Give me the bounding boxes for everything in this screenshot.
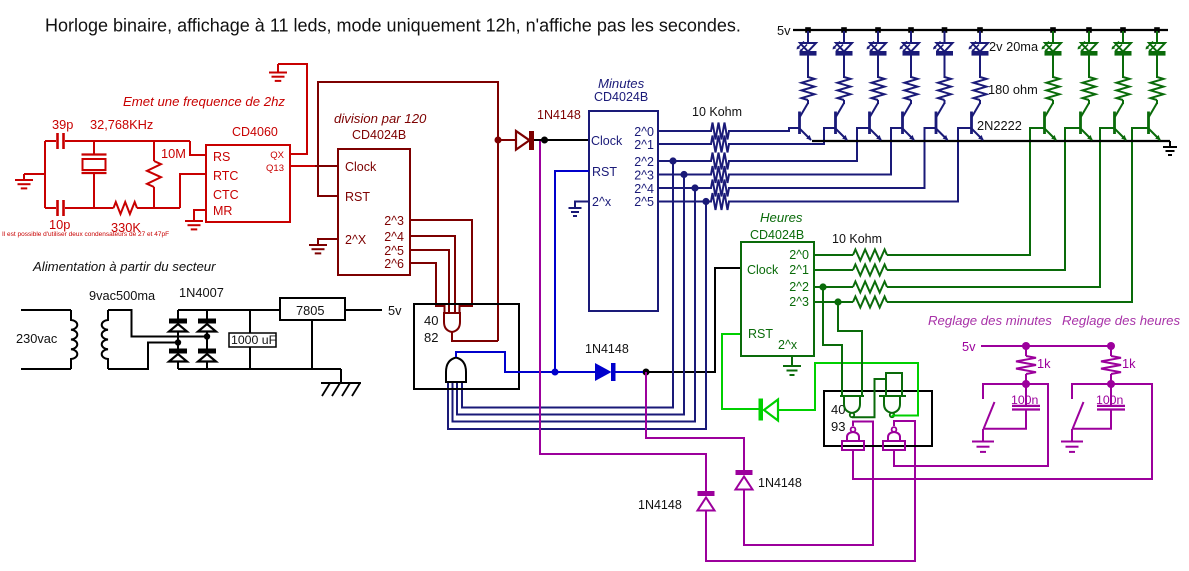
resistor 1k bbox=[1110, 346, 1112, 356]
resistor 180ohm bbox=[1083, 77, 1096, 100]
node on 5v rail bbox=[1050, 27, 1056, 33]
node 2^3 bbox=[680, 171, 687, 178]
wire bbox=[1122, 31, 1124, 43]
wire 2^3 line bbox=[658, 174, 712, 176]
wire bbox=[728, 128, 903, 175]
node bbox=[1022, 380, 1030, 388]
NAND gate U6b bbox=[879, 395, 906, 397]
wire bbox=[1052, 56, 1054, 79]
wire left vertical bbox=[44, 141, 46, 208]
svg-text:2^4: 2^4 bbox=[634, 182, 654, 196]
wire bbox=[843, 31, 845, 43]
wire RST bbox=[555, 171, 589, 372]
wire clock feed bbox=[315, 165, 338, 167]
wire Q13 output bbox=[290, 165, 316, 167]
svg-text:1k: 1k bbox=[1037, 356, 1051, 371]
ground bbox=[269, 72, 287, 74]
svg-text:2^5: 2^5 bbox=[634, 195, 654, 209]
wire gate1 output bbox=[852, 379, 886, 417]
wire to switch bbox=[1072, 384, 1111, 399]
node on 5v rail bbox=[875, 27, 881, 33]
wire gate output bbox=[456, 352, 596, 372]
node on 5v rail bbox=[1086, 27, 1092, 33]
svg-text:2^0: 2^0 bbox=[789, 248, 809, 262]
svg-text:9vac500ma: 9vac500ma bbox=[89, 288, 156, 303]
svg-text:Clock: Clock bbox=[591, 134, 623, 148]
wire 2^1 line bbox=[658, 143, 712, 145]
wire bbox=[944, 100, 946, 104]
svg-text:2^3: 2^3 bbox=[789, 295, 809, 309]
resistor 10K bbox=[711, 166, 729, 183]
svg-text:2^4: 2^4 bbox=[384, 230, 404, 244]
svg-text:Minutes: Minutes bbox=[598, 76, 645, 91]
node bbox=[541, 137, 548, 144]
transistor Q10 2N2222 bbox=[1147, 112, 1150, 135]
svg-text:Il est possible d'utiliser deu: Il est possible d'utiliser deux condensa… bbox=[2, 231, 169, 238]
transistor Q9 2N2222 bbox=[1113, 112, 1116, 135]
svg-text:2v 20ma: 2v 20ma bbox=[989, 39, 1039, 54]
wire bbox=[1122, 56, 1124, 79]
node on 5v rail bbox=[1154, 27, 1160, 33]
wire 2^X ground bbox=[318, 239, 338, 245]
wire bbox=[1156, 56, 1158, 79]
svg-text:180 ohm: 180 ohm bbox=[988, 82, 1038, 97]
resistor 180ohm bbox=[838, 77, 851, 100]
wire 2^4 bbox=[410, 236, 455, 313]
svg-text:CD4024B: CD4024B bbox=[750, 228, 804, 242]
LED D10 bbox=[1149, 43, 1165, 52]
NAND gate U6d bbox=[892, 427, 897, 432]
transistor Q1 2N2222 bbox=[798, 112, 801, 135]
resistor 10K bbox=[853, 250, 887, 261]
svg-text:5v: 5v bbox=[388, 303, 402, 318]
transformer T1 primary bbox=[71, 310, 77, 369]
wire heures clock to diode bbox=[646, 372, 744, 470]
wire bbox=[887, 128, 1115, 287]
wire gate3 input bbox=[853, 384, 1152, 479]
node on 5v rail bbox=[942, 27, 948, 33]
svg-text:5v: 5v bbox=[777, 23, 791, 38]
wire secondary bottom bbox=[108, 343, 178, 370]
wire 2^1 line bbox=[814, 269, 853, 271]
IC U6 4093 bbox=[824, 391, 932, 446]
transistor Q7 2N2222 bbox=[1043, 112, 1046, 135]
svg-text:5v: 5v bbox=[962, 339, 976, 354]
wire 2^3 bbox=[410, 220, 472, 313]
switch SW bbox=[1073, 402, 1084, 429]
wire bottom rail bbox=[45, 207, 180, 209]
wire 2^4 to gate bbox=[453, 188, 696, 422]
resistor 10K bbox=[711, 153, 729, 170]
node 2^4 bbox=[691, 184, 698, 191]
node 2^3 bbox=[834, 298, 841, 305]
capacitor 39p bbox=[56, 133, 59, 149]
svg-text:10p: 10p bbox=[49, 217, 70, 232]
svg-text:QX: QX bbox=[270, 150, 284, 161]
svg-text:2^2: 2^2 bbox=[789, 280, 809, 294]
wire emitter rail bbox=[812, 140, 1170, 142]
resistor 10K bbox=[711, 193, 729, 210]
wire bbox=[744, 422, 873, 546]
wire bbox=[1052, 31, 1054, 43]
node on 5v rail bbox=[977, 27, 983, 33]
svg-text:7805: 7805 bbox=[296, 303, 324, 318]
wire 2^2 to gate1 bbox=[823, 287, 842, 396]
svg-text:40: 40 bbox=[424, 313, 438, 328]
ground bbox=[1061, 441, 1083, 443]
wire 2^x ground bbox=[575, 202, 589, 209]
transistor Q8 2N2222 bbox=[1079, 112, 1082, 135]
svg-text:Horloge binaire, affichage à 1: Horloge binaire, affichage à 11 leds, mo… bbox=[45, 16, 741, 36]
LED D4 bbox=[903, 43, 919, 52]
svg-text:Clock: Clock bbox=[345, 160, 377, 174]
wire bbox=[877, 100, 879, 104]
svg-text:1N4148: 1N4148 bbox=[638, 498, 682, 512]
regulator U8 7805 bbox=[280, 298, 345, 320]
node bbox=[175, 339, 181, 345]
diode D5 bbox=[759, 399, 764, 421]
wire RTC bbox=[180, 174, 206, 208]
wire bbox=[1088, 31, 1090, 43]
resistor 1k bbox=[1025, 346, 1027, 356]
wire 2^4 line bbox=[658, 187, 712, 189]
wire gate2 tied inputs bbox=[886, 373, 902, 396]
wire 5v bbox=[981, 345, 1111, 347]
wire bbox=[944, 31, 946, 43]
wire heures RST loop bbox=[722, 334, 759, 409]
wire bbox=[910, 31, 912, 43]
svg-text:Reglage des minutes: Reglage des minutes bbox=[928, 313, 1052, 328]
svg-text:Heures: Heures bbox=[760, 210, 803, 225]
wire 2^6 bbox=[410, 263, 445, 313]
ground bbox=[24, 174, 45, 180]
wire gate4 input bbox=[894, 384, 1048, 466]
svg-text:1000 uF: 1000 uF bbox=[231, 333, 277, 347]
wire bbox=[706, 421, 915, 561]
resistor 10K bbox=[711, 123, 729, 140]
wire 5v output bbox=[345, 309, 382, 311]
LED D9 bbox=[1115, 43, 1131, 52]
svg-text:RST: RST bbox=[748, 327, 773, 341]
node junction bbox=[495, 137, 502, 144]
wire minutes clock to diode bbox=[540, 141, 706, 491]
resistor 10K bbox=[711, 136, 729, 153]
resistor 180ohm bbox=[872, 77, 885, 100]
wire top rail bbox=[45, 140, 190, 142]
wire to Minutes clock bbox=[534, 139, 589, 141]
LED D7 bbox=[1045, 43, 1061, 52]
LED D6 bbox=[972, 43, 988, 52]
svg-text:CD4060: CD4060 bbox=[232, 125, 278, 139]
resistor 180ohm bbox=[905, 77, 918, 100]
wire RST loop bbox=[318, 82, 498, 341]
node on 5v rail bbox=[841, 27, 847, 33]
wire mains bbox=[21, 310, 71, 369]
svg-text:10 Kohm: 10 Kohm bbox=[692, 105, 742, 119]
svg-text:Clock: Clock bbox=[747, 263, 779, 277]
resistor 10K bbox=[711, 180, 729, 197]
IC U5 4082 bbox=[414, 304, 519, 389]
wire secondary top bbox=[108, 310, 207, 337]
wire to switch bbox=[983, 384, 1026, 399]
svg-text:2^6: 2^6 bbox=[384, 257, 404, 271]
wire bbox=[979, 31, 981, 43]
wire MR ground bbox=[194, 210, 206, 221]
wire bbox=[877, 31, 879, 43]
svg-text:93: 93 bbox=[831, 419, 845, 434]
wire bbox=[1156, 100, 1158, 104]
node bbox=[552, 369, 559, 376]
wire QX to ground bbox=[278, 64, 307, 154]
svg-text:Alimentation à partir du secte: Alimentation à partir du secteur bbox=[32, 259, 216, 274]
LED D2 bbox=[836, 43, 852, 52]
transformer T1 secondary bbox=[102, 310, 108, 369]
wire to Heures clock bbox=[646, 268, 741, 372]
svg-text:Q13: Q13 bbox=[266, 163, 284, 174]
AND gate U5b bbox=[446, 358, 466, 383]
LED D3 bbox=[870, 43, 886, 52]
wire bridge bottom rail bbox=[178, 368, 341, 370]
wire bbox=[1156, 31, 1158, 43]
svg-text:2^3: 2^3 bbox=[634, 169, 654, 183]
wire bbox=[206, 332, 208, 349]
switch SW bbox=[984, 402, 995, 429]
node bbox=[1107, 342, 1115, 350]
wire 2^0 line bbox=[658, 130, 712, 132]
wire bbox=[1088, 100, 1090, 104]
ground bbox=[972, 441, 994, 443]
wire 2^5 bbox=[410, 250, 449, 313]
svg-text:division par 120: division par 120 bbox=[334, 111, 427, 126]
svg-text:1N4148: 1N4148 bbox=[585, 342, 629, 356]
svg-text:1N4148: 1N4148 bbox=[537, 108, 581, 122]
wire bbox=[910, 100, 912, 104]
wire 2^3 to gate bbox=[457, 175, 684, 415]
svg-text:2^x: 2^x bbox=[592, 195, 612, 209]
svg-text:RST: RST bbox=[592, 165, 617, 179]
wire bbox=[887, 128, 1045, 255]
svg-text:10M: 10M bbox=[161, 146, 186, 161]
wire bbox=[1122, 100, 1124, 104]
LED D8 bbox=[1081, 43, 1097, 52]
transistor Q3 2N2222 bbox=[868, 112, 871, 135]
wire bbox=[728, 128, 836, 144]
wire bbox=[778, 363, 918, 417]
ground bbox=[791, 356, 793, 366]
resistor 180ohm bbox=[1151, 77, 1164, 100]
wire bbox=[843, 56, 845, 79]
node bbox=[1107, 380, 1115, 388]
svg-text:1N4007: 1N4007 bbox=[179, 285, 224, 300]
svg-text:MR: MR bbox=[213, 204, 232, 218]
diode bridge D7 bbox=[169, 349, 187, 354]
wire 5v rail bbox=[793, 29, 1168, 31]
svg-text:Emet une frequence de 2hz: Emet une frequence de 2hz bbox=[123, 94, 285, 109]
wire bbox=[728, 128, 800, 131]
resistor 180ohm bbox=[1047, 77, 1060, 100]
svg-text:230vac: 230vac bbox=[16, 331, 58, 346]
svg-text:10 Kohm: 10 Kohm bbox=[832, 232, 882, 246]
node on 5v rail bbox=[805, 27, 811, 33]
node bbox=[204, 333, 210, 339]
node bbox=[643, 369, 650, 376]
svg-text:RST: RST bbox=[345, 190, 370, 204]
wire bbox=[728, 128, 937, 188]
svg-text:2^2: 2^2 bbox=[634, 155, 654, 169]
ground bbox=[1169, 141, 1171, 147]
wire bbox=[807, 56, 809, 79]
transistor Q2 2N2222 bbox=[834, 112, 837, 135]
wire 2^3 to gate1 bbox=[838, 302, 862, 396]
node bbox=[1022, 342, 1030, 350]
wire 2^5 line bbox=[658, 201, 712, 203]
wire bbox=[887, 128, 1081, 270]
svg-text:CD4024B: CD4024B bbox=[352, 128, 406, 142]
wire 2^3 line bbox=[814, 301, 853, 303]
resistor 180ohm bbox=[1117, 77, 1130, 100]
svg-text:2^x: 2^x bbox=[778, 338, 798, 352]
diode bridge D6 bbox=[177, 310, 179, 319]
wire bbox=[807, 31, 809, 43]
node on 5v rail bbox=[1120, 27, 1126, 33]
wire bbox=[177, 332, 179, 349]
svg-text:2^3: 2^3 bbox=[384, 214, 404, 228]
wire bbox=[843, 100, 845, 104]
wire bridge top rail bbox=[178, 309, 280, 311]
wire bbox=[728, 128, 870, 161]
wire bbox=[887, 128, 1149, 302]
transistor Q5 2N2222 bbox=[935, 112, 938, 135]
wire 2^2 to gate bbox=[462, 161, 673, 408]
svg-text:39p: 39p bbox=[52, 117, 73, 132]
ground mains bbox=[321, 369, 361, 383]
wire bbox=[979, 100, 981, 104]
wire 2^2 line bbox=[814, 286, 853, 288]
wire 2^0 line bbox=[814, 254, 853, 256]
NAND gate U6c bbox=[851, 427, 856, 432]
capacitor 10p bbox=[56, 200, 59, 216]
wire 2^2 line bbox=[658, 160, 712, 162]
resistor 180ohm bbox=[974, 77, 987, 100]
wire RS bbox=[190, 141, 206, 155]
capacitor 1000uF bbox=[249, 310, 251, 333]
transistor Q4 2N2222 bbox=[901, 112, 904, 135]
wire bbox=[944, 56, 946, 79]
svg-text:2^0: 2^0 bbox=[634, 125, 654, 139]
svg-text:2^1: 2^1 bbox=[789, 263, 809, 277]
LED D1 bbox=[800, 43, 816, 52]
transistor Q6 2N2222 bbox=[970, 112, 973, 135]
resistor 180ohm bbox=[802, 77, 815, 100]
wire bbox=[807, 100, 809, 104]
wire bbox=[728, 128, 972, 202]
resistor 10K bbox=[853, 265, 887, 276]
svg-text:32,768KHz: 32,768KHz bbox=[90, 117, 153, 132]
svg-text:2N2222: 2N2222 bbox=[977, 118, 1022, 133]
AND gate U3a 4082 bbox=[444, 313, 460, 332]
diode bridge D8 bbox=[206, 310, 208, 319]
node on 5v rail bbox=[908, 27, 914, 33]
wire regulator ground bbox=[311, 320, 313, 369]
svg-text:CD4024B: CD4024B bbox=[594, 90, 648, 104]
wire bbox=[1088, 56, 1090, 79]
svg-text:1k: 1k bbox=[1122, 356, 1136, 371]
svg-text:2^5: 2^5 bbox=[384, 244, 404, 258]
wire 2^5 to gate bbox=[448, 202, 706, 430]
NAND gate U6a bbox=[840, 395, 864, 397]
wire bbox=[979, 56, 981, 79]
LED D5 bbox=[937, 43, 953, 52]
svg-text:2^X: 2^X bbox=[345, 233, 367, 247]
wire gate output bbox=[452, 332, 498, 341]
diode bridge D9 bbox=[198, 349, 216, 354]
svg-text:Reglage des heures: Reglage des heures bbox=[1062, 313, 1180, 328]
svg-text:CTC: CTC bbox=[213, 188, 239, 202]
svg-text:RS: RS bbox=[213, 150, 230, 164]
node 2^2 bbox=[819, 283, 826, 290]
wire bbox=[1052, 100, 1054, 104]
node 2^2 bbox=[669, 157, 676, 164]
wire bbox=[910, 56, 912, 79]
svg-text:1N4148: 1N4148 bbox=[758, 476, 802, 490]
svg-text:2^1: 2^1 bbox=[634, 138, 654, 152]
svg-text:82: 82 bbox=[424, 330, 438, 345]
svg-text:RTC: RTC bbox=[213, 169, 238, 183]
resistor 180ohm bbox=[938, 77, 951, 100]
resistor 10K bbox=[853, 282, 887, 293]
resistor 10K bbox=[853, 297, 887, 308]
node 2^5 bbox=[702, 198, 709, 205]
wire bbox=[877, 56, 879, 79]
